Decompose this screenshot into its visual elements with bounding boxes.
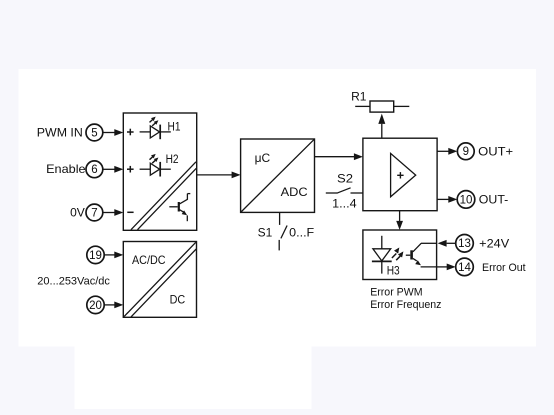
minus sign pin 7 row: [127, 211, 133, 213]
svg-text:20...253Vac/dc: 20...253Vac/dc: [37, 276, 110, 288]
svg-text:H1: H1: [168, 121, 181, 133]
svg-text:0...F: 0...F: [289, 226, 314, 240]
svg-text:H2: H2: [166, 154, 179, 166]
wire terminal 5 to input block with arrow: [103, 129, 124, 136]
svg-text:7: 7: [91, 207, 97, 219]
switch S2 open contact: [326, 188, 363, 193]
svg-text:H3: H3: [387, 266, 400, 278]
svg-text:20: 20: [89, 300, 102, 312]
wire terminal 19 to AC/DC block with arrow: [104, 252, 123, 259]
terminal circle 6: [86, 161, 103, 178]
light arrows H3 to Q2: [392, 248, 404, 261]
svg-text:5: 5: [91, 127, 97, 139]
background panel bottom white tab: [75, 346, 312, 409]
terminal circle 7: [86, 204, 103, 221]
microcontroller block U2 uC/ADC: [241, 139, 315, 212]
svg-text:PWM IN: PWM IN: [37, 126, 83, 140]
LED H3: [372, 236, 392, 274]
svg-text:Error Frequenz: Error Frequenz: [370, 299, 441, 311]
terminal circle 13: [456, 235, 474, 253]
phototransistor Q2: [406, 243, 421, 265]
terminal circle 19: [87, 246, 104, 263]
wire amplifier to R1 with up arrow: [378, 114, 385, 139]
svg-text:R1: R1: [351, 90, 367, 104]
terminal circle 20: [87, 296, 104, 313]
background panel main white area: [19, 69, 537, 347]
wire terminal 7 to input block with arrow: [103, 209, 124, 216]
LED H2: [140, 154, 171, 177]
svg-text:Enable: Enable: [46, 162, 86, 176]
terminal circle 10: [457, 191, 475, 209]
svg-text:13: 13: [458, 238, 471, 250]
optocoupler block U4: [363, 230, 437, 280]
svg-text:Error Out: Error Out: [482, 262, 526, 274]
switch S1 stem upper: [279, 212, 281, 225]
resistor R1: [355, 101, 409, 112]
svg-text:0V: 0V: [70, 205, 85, 219]
terminal circle 5: [86, 124, 103, 141]
op-amp triangle: [391, 153, 416, 196]
wire amplifier to terminal 10 with arrow: [437, 196, 457, 203]
plus sign pin 5 row: [127, 129, 134, 136]
transistor Q1 in U1: [169, 194, 190, 222]
svg-text:+24V: +24V: [479, 236, 509, 250]
svg-text:9: 9: [463, 146, 469, 158]
svg-text:OUT-: OUT-: [479, 193, 509, 207]
power supply block AC/DC: [123, 242, 196, 318]
plus sign pin 6 row: [127, 166, 134, 173]
wire U2 to amplifier with arrow: [315, 153, 363, 160]
isolation double diagonal in AC/DC block: [124, 242, 196, 317]
svg-text:19: 19: [89, 250, 102, 262]
wire Q2 collector to box edge: [421, 242, 437, 244]
svg-text:μC: μC: [255, 151, 271, 165]
wire terminal 6 to input block with arrow: [103, 166, 124, 173]
svg-text:ADC: ADC: [281, 185, 308, 199]
wire terminal 20 to AC/DC block with arrow: [104, 302, 123, 309]
amplifier block U3: [363, 138, 437, 211]
switch S1 lever slash: [281, 226, 287, 239]
svg-text:S1: S1: [258, 226, 273, 240]
svg-text:6: 6: [91, 164, 97, 176]
LED H1: [140, 117, 171, 140]
svg-text:AC/DC: AC/DC: [132, 253, 166, 267]
terminal circle 14: [456, 258, 474, 276]
switch S1 stem lower: [278, 240, 280, 251]
svg-text:Error PWM: Error PWM: [370, 287, 422, 299]
wire amplifier to terminal 9 with arrow: [437, 148, 457, 155]
wire Q2 emitter to box edge: [421, 266, 437, 268]
wire U1 to uC block with arrow: [197, 172, 241, 179]
svg-text:OUT+: OUT+: [478, 144, 513, 158]
svg-text:1...4: 1...4: [332, 196, 357, 210]
diagonal in U2: [241, 139, 314, 212]
svg-text:10: 10: [460, 194, 473, 206]
isolation barrier double diagonal in U1: [131, 162, 196, 230]
plus sign in op-amp: [397, 172, 403, 178]
svg-text:S2: S2: [337, 171, 353, 185]
svg-text:14: 14: [458, 262, 471, 274]
wire optocoupler to terminal 14 with arrow: [437, 264, 456, 271]
input isolation block U1: [123, 113, 196, 230]
svg-text:DC: DC: [170, 293, 186, 307]
terminal circle 9: [457, 143, 474, 160]
wire amplifier down to optocoupler with arrow: [396, 211, 403, 230]
wire terminal 13 into optocoupler with left arrow: [438, 240, 456, 247]
